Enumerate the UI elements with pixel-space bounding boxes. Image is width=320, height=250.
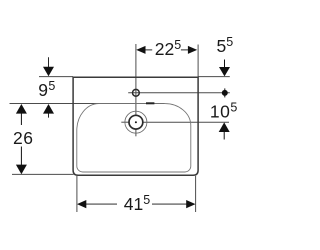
dimension 41.5: left arrow <box>77 200 86 208</box>
dimension 9.5 left: down arrow with tail <box>48 57 50 67</box>
dimension 9.5: up arrow with tail <box>43 104 54 114</box>
drain outer circle <box>125 111 147 133</box>
wire: bottom edge extension left <box>12 173 74 175</box>
dimension 10.5 right: dot terminator <box>222 90 228 96</box>
dimension 5.5: down arrow with tail <box>224 60 226 68</box>
dimension 41.5: line segments <box>86 203 117 205</box>
wire: basin rim reference line <box>10 103 165 105</box>
wire: right extension line for 22.5 dim <box>197 45 199 78</box>
svg-text:26: 26 <box>13 128 33 148</box>
dimension 22.5: left arrow <box>136 46 145 54</box>
dimension 26: down arrow with tail <box>20 147 22 166</box>
wire: vertical tick below drain <box>135 129 137 136</box>
dimension 22.5 top: line segments <box>146 49 153 51</box>
dimension 41.5 bottom: extension lines <box>76 176 78 212</box>
sink outer outline <box>73 77 198 175</box>
faucet hole <box>133 89 140 96</box>
overflow slot <box>146 102 154 104</box>
wire: drain centerline left tick <box>121 121 128 123</box>
wire: top edge extension right <box>198 76 230 78</box>
drain inner circle <box>129 115 143 129</box>
dimension 10.5: up arrow with tail <box>219 122 230 132</box>
wire: vertical centerline through faucet <box>135 44 137 115</box>
wire: top edge extension left <box>39 76 73 78</box>
dimension 41.5: right arrow <box>186 200 195 208</box>
wire: drain centerline right <box>143 121 229 123</box>
basin inner outline <box>77 104 191 172</box>
drain center dot <box>135 121 137 123</box>
dimension 22.5: right arrow <box>188 46 197 54</box>
wire: faucet centerline horizontal <box>128 92 230 94</box>
dimension 26 left: up arrow with tail <box>16 104 27 114</box>
